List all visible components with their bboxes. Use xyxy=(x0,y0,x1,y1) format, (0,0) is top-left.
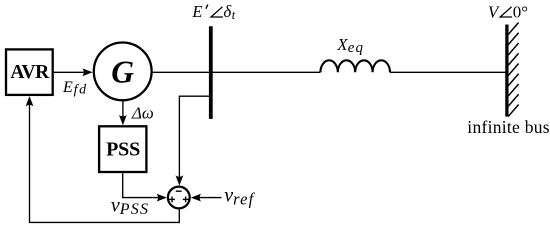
block AVR xyxy=(6,49,53,95)
bus bar xyxy=(209,26,213,119)
svg-text:AVR: AVR xyxy=(10,62,50,83)
plus right xyxy=(183,198,189,200)
generator G xyxy=(94,43,152,101)
svg-text:infinite bus: infinite bus xyxy=(467,117,550,137)
angle symbol xyxy=(500,7,512,17)
wire PSS to summer xyxy=(123,173,159,197)
summer xyxy=(168,187,190,209)
inductor Xeq xyxy=(320,60,390,72)
svg-text:Efd: Efd xyxy=(62,79,88,98)
svg-text:PSS: PSS xyxy=(106,139,140,161)
tap from bus to summer xyxy=(179,96,210,177)
feedback wire summer to AVR xyxy=(30,104,180,222)
angle symbol xyxy=(211,7,223,17)
svg-text:0°: 0° xyxy=(513,2,528,21)
arrow G down to PSS xyxy=(122,101,124,117)
hatching xyxy=(508,23,518,117)
svg-text:E: E xyxy=(191,2,202,21)
wire AVR to G xyxy=(53,71,84,73)
arrow vref to summer xyxy=(199,197,222,199)
minus sign xyxy=(176,190,182,192)
infinite bus wall xyxy=(505,25,508,117)
plus left xyxy=(169,198,175,200)
block PSS xyxy=(99,126,146,172)
wire bus to inductor xyxy=(210,71,320,73)
wire inductor to infinite bus xyxy=(390,71,506,73)
wire G to bus xyxy=(152,71,210,73)
svg-text:G: G xyxy=(111,54,134,89)
svg-text:Δω: Δω xyxy=(131,104,154,123)
